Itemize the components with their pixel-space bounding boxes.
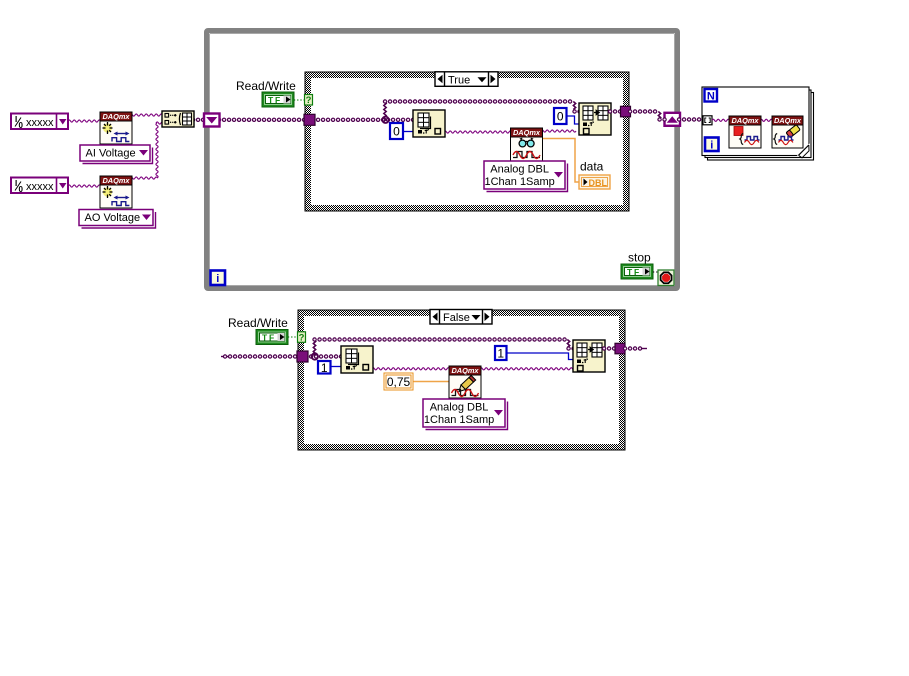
case structure 2 (False)	[298, 310, 625, 450]
wire: tunnel to zigzag	[630, 109, 660, 113]
wire: task read->replace	[541, 130, 576, 132]
numeric constant 0 (index)	[390, 123, 403, 139]
svg-text:DAQmx: DAQmx	[102, 176, 130, 185]
svg-text:xxxxx: xxxxx	[26, 117, 54, 129]
svg-text:i: i	[216, 273, 219, 285]
junction case1	[382, 117, 388, 123]
wire: case1 riser to top	[384, 102, 386, 122]
svg-text:T: T	[262, 333, 268, 343]
svg-text:?: ?	[306, 95, 312, 106]
svg-text:?: ?	[299, 332, 305, 343]
svg-text:I: I	[15, 115, 17, 124]
wire: zigzag down	[658, 112, 660, 120]
numeric constant 1 (index)	[318, 361, 331, 375]
svg-text:Analog DBL: Analog DBL	[430, 402, 489, 414]
wire: into build array low input	[156, 122, 164, 124]
svg-text:DBL: DBL	[589, 178, 608, 188]
wire: shift reg to for loop	[679, 117, 704, 121]
numeric constant 1 (replace idx)	[495, 346, 507, 361]
wire: physical channel A to create A	[68, 120, 101, 122]
wire: task write out	[480, 368, 575, 370]
wire: task element to write	[372, 368, 450, 370]
wire: case2 drop	[567, 340, 569, 348]
DAQmx Clear Task node	[772, 116, 803, 148]
wire: create B out	[130, 177, 158, 179]
for loop iteration terminal i	[705, 138, 719, 152]
build array node	[162, 111, 194, 127]
wire: into right shift reg	[660, 117, 667, 121]
wire: dotted green TF to selector	[294, 99, 305, 101]
svg-text:1: 1	[497, 347, 504, 361]
svg-text:AO Voltage: AO Voltage	[85, 212, 141, 224]
case 1 selector terminal ?	[305, 95, 313, 107]
auto-index tunnel []	[703, 116, 712, 125]
wire: blue 1 to replace 2	[505, 353, 574, 360]
svg-text:Analog DBL: Analog DBL	[490, 164, 549, 176]
svg-text:0: 0	[557, 110, 564, 124]
replace array subset node (case1)	[579, 103, 611, 135]
svg-text:False: False	[443, 312, 470, 324]
selector Analog DBL 1Chan 1Samp (read)	[484, 161, 568, 192]
I/O constant 1 (xxxxx)	[11, 114, 68, 131]
svg-text:DAQmx: DAQmx	[513, 128, 541, 137]
case 2 selector label	[430, 310, 492, 325]
TF constant Read/Write (top)	[262, 92, 294, 107]
svg-text:AI Voltage: AI Voltage	[86, 148, 136, 160]
wire: task element index->read	[444, 131, 512, 133]
svg-text:N: N	[707, 91, 715, 103]
loop conditional terminal (stop button)	[658, 270, 674, 286]
svg-text:I: I	[15, 179, 17, 188]
wire: dotted stop to conditional	[653, 271, 659, 273]
wire: blue 1 to index array 2	[329, 366, 342, 368]
svg-text:i: i	[710, 139, 713, 151]
right shift register	[665, 113, 681, 126]
junction case2	[312, 353, 318, 359]
svg-text:DAQmx: DAQmx	[102, 112, 130, 121]
wire: into replace node	[575, 109, 581, 113]
TF constant stop	[621, 264, 653, 279]
wire: case2 top task array	[315, 337, 570, 341]
wire: task array build->shift reg	[193, 118, 206, 122]
for loop stacked frames	[702, 87, 814, 160]
svg-text:1Chan 1Samp: 1Chan 1Samp	[484, 176, 554, 188]
DAQmx Read node	[511, 128, 543, 161]
wire: dotted green TF to selector 2	[288, 336, 298, 338]
svg-text:1Chan 1Samp: 1Chan 1Samp	[424, 414, 494, 426]
svg-text:xxxxx: xxxxx	[26, 181, 54, 193]
indicator data DBL	[579, 175, 610, 189]
svg-text:F: F	[269, 333, 274, 343]
wire: case1 drop to replace node	[573, 102, 575, 110]
wire: replace out to tunnel	[610, 109, 621, 113]
left shift register	[204, 114, 220, 127]
wire: blue 0 to replace node	[565, 116, 580, 124]
svg-text:F: F	[634, 267, 639, 277]
tunnel case1 right	[621, 106, 631, 117]
svg-text:0,75: 0,75	[387, 375, 411, 389]
wire: task to stop node	[712, 119, 730, 121]
wire tail left	[221, 356, 228, 358]
svg-text:Read/Write: Read/Write	[236, 79, 296, 93]
wire: case2 main	[306, 354, 342, 358]
wire: into replace2	[569, 346, 575, 350]
DAQmx Create Virtual Channel AO	[100, 176, 132, 208]
selector AO Voltage	[79, 210, 156, 229]
tunnel case2 left	[297, 351, 308, 362]
svg-text:T: T	[268, 95, 274, 105]
case 2 selector terminal ?	[298, 332, 306, 344]
tunnel case2 right	[615, 343, 625, 354]
svg-text:Read/Write: Read/Write	[228, 316, 288, 330]
index array node (case1)	[413, 110, 445, 137]
svg-text:F: F	[275, 95, 280, 105]
TF constant Read/Write (bottom)	[256, 330, 288, 345]
wire: case2 riser	[313, 340, 315, 356]
case structure 1 (True)	[305, 72, 629, 211]
wire: physical channel B to create B	[68, 185, 101, 187]
numeric constant 0 (replace idx)	[554, 108, 567, 124]
svg-text:DAQmx: DAQmx	[774, 116, 802, 125]
DAQmx Stop Task node	[729, 116, 761, 148]
while loop frame	[207, 31, 678, 289]
svg-text:True: True	[448, 74, 470, 86]
wire: case1 main task array	[313, 118, 414, 122]
DAQmx Create Virtual Channel AI	[100, 112, 132, 144]
wire: task array into case 2	[225, 354, 299, 358]
tunnel case1 left	[304, 114, 315, 125]
wire: case1 top task array	[385, 99, 575, 103]
for loop count terminal N	[705, 89, 718, 103]
svg-text:stop: stop	[628, 251, 651, 265]
svg-text:DAQmx: DAQmx	[451, 366, 479, 375]
DAQmx Write node	[449, 366, 481, 398]
wire: orange data DBL	[541, 139, 580, 183]
while loop iteration terminal i	[211, 271, 226, 286]
wire: create B riser	[156, 123, 158, 178]
wire: blue index 0 to index array	[402, 131, 414, 133]
replace array subset node (case2)	[573, 340, 605, 372]
wire: shift reg to case 1	[219, 118, 306, 122]
wire: orange 0,75 to write	[412, 381, 450, 383]
svg-text:DAQmx: DAQmx	[731, 116, 759, 125]
svg-text:T: T	[627, 267, 633, 277]
wire: task array out of case 2	[625, 346, 644, 350]
I/O constant 2 (xxxxx)	[11, 178, 68, 195]
wire: create A out to build array	[130, 114, 163, 116]
wire: replace2 out	[604, 346, 616, 350]
selector Analog DBL 1Chan 1Samp (write)	[423, 399, 508, 430]
index array node (case2)	[341, 346, 373, 373]
svg-text:data: data	[580, 160, 604, 174]
svg-text:0: 0	[393, 125, 400, 139]
svg-text:1: 1	[321, 361, 328, 375]
svg-text:0: 0	[19, 185, 24, 194]
case 1 selector label	[435, 72, 498, 87]
svg-text:0: 0	[19, 121, 24, 130]
selector AI Voltage	[80, 145, 153, 164]
numeric constant 0,75	[384, 373, 413, 390]
wire: stop to clear node	[760, 119, 773, 121]
